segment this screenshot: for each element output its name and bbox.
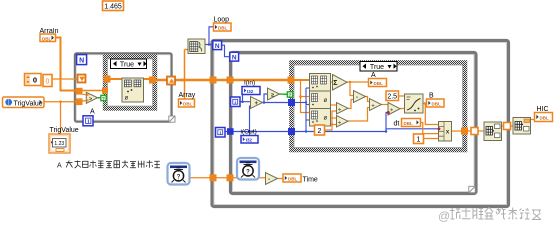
wire array into case 2 (orange) bbox=[294, 79, 310, 81]
svg-text:I32: I32 bbox=[246, 138, 253, 143]
watermark bbox=[438, 208, 541, 224]
iteration terminal i inner loop bbox=[231, 97, 241, 107]
wire power to B indicator with drop to multiply node bbox=[423, 103, 427, 105]
control terminal dt bbox=[402, 119, 421, 127]
annotation chinese text bbox=[57, 160, 160, 169]
indicator terminal Time bbox=[283, 174, 301, 182]
svg-text:2.5: 2.5 bbox=[387, 94, 397, 101]
svg-text:A: A bbox=[57, 163, 62, 170]
tunnel case 1 left bbox=[104, 76, 111, 83]
big divide node with coercion dot bbox=[387, 103, 400, 116]
svg-text:0: 0 bbox=[46, 79, 50, 86]
svg-text:-: - bbox=[268, 177, 270, 183]
wire to index array 1 bbox=[478, 130, 484, 132]
svg-text:?: ? bbox=[177, 174, 181, 180]
wire inside case 1 through icon bbox=[110, 78, 149, 80]
svg-text:DBL: DBL bbox=[183, 101, 192, 106]
tunnel case 2 right (result) bbox=[461, 128, 468, 135]
constant 2 bbox=[315, 125, 325, 135]
svg-text:DBL: DBL bbox=[432, 101, 441, 106]
tunnel outer loop right (hollow) bbox=[504, 123, 511, 130]
wire icon outputs to triangles bbox=[331, 81, 334, 83]
wire index array 2 to HIC indicator bbox=[531, 119, 535, 121]
case structure 1 border (checkered) bbox=[105, 57, 155, 109]
wire constant 1 into multiply node bbox=[424, 138, 439, 140]
wire blue riser to divide node bbox=[386, 113, 388, 132]
svg-text:N: N bbox=[215, 43, 220, 50]
case structure 2 border (checkered) bbox=[292, 63, 466, 151]
svg-text:DBL: DBL bbox=[42, 36, 51, 41]
inner for-loop resize handle bbox=[469, 186, 475, 192]
divide node 1 bbox=[337, 103, 349, 115]
inner for-loop border bbox=[231, 53, 477, 194]
numeric constant 0 with increment arrows bbox=[25, 74, 42, 86]
shared variable TrigValue bbox=[3, 97, 45, 108]
svg-text:B: B bbox=[429, 93, 434, 100]
svg-text:Loop: Loop bbox=[214, 17, 230, 24]
middle divide node bbox=[370, 99, 382, 111]
array subset icon stack inside case 2 bbox=[310, 74, 331, 127]
tunnel loop 1 left lower (TrigValue) bbox=[76, 98, 87, 105]
for-loop 1 count terminal N bbox=[77, 55, 87, 65]
indicator terminal Loop bbox=[214, 23, 232, 31]
wire subtract to middle triangle bbox=[365, 97, 370, 102]
svg-text:DBL: DBL bbox=[404, 121, 413, 126]
svg-text:-: - bbox=[356, 95, 358, 101]
wire add output to case selector 2 and tunnel bbox=[262, 102, 291, 104]
indicator terminal HIC bbox=[535, 113, 553, 122]
svg-text:÷: ÷ bbox=[372, 103, 375, 109]
wire constant 2 risers to divide triangles bbox=[325, 111, 337, 130]
wire fan to subset icons inside case 2 bbox=[301, 80, 311, 113]
wire multiply node out of case 2 bbox=[452, 130, 472, 132]
control terminal ArraIn bbox=[40, 34, 56, 42]
wire icon index feeds (blue) inside case 2 bbox=[295, 102, 306, 104]
wire sum branch down to subtract bbox=[350, 82, 354, 96]
svg-text:ArraIn: ArraIn bbox=[40, 28, 59, 35]
greater? node bbox=[86, 92, 97, 103]
indexing output tunnel loop 1 right bbox=[167, 76, 176, 85]
svg-text:I(in): I(in) bbox=[244, 80, 255, 87]
compound multiply node bbox=[438, 122, 452, 142]
svg-text:HIC: HIC bbox=[537, 106, 549, 113]
svg-text:True: True bbox=[120, 62, 134, 69]
for-loop 1 resize handle bbox=[169, 116, 175, 122]
svg-text:ø: ø bbox=[324, 116, 328, 122]
svg-text:A: A bbox=[90, 109, 95, 116]
wait clock 2 (inside loop) bbox=[237, 158, 259, 180]
svg-text:TrigValue: TrigValue bbox=[14, 100, 43, 107]
outer loop count terminal N bbox=[213, 41, 222, 50]
for-loop 1 border bbox=[75, 54, 172, 122]
subtract node (Time) bbox=[266, 173, 278, 185]
svg-text:DBL: DBL bbox=[374, 81, 383, 86]
iteration terminal i outer loop bbox=[216, 128, 226, 138]
svg-text:TrigValue: TrigValue bbox=[50, 127, 79, 134]
wire 2.5 into power function bbox=[399, 95, 405, 97]
tunnel case 2 top-left (array) bbox=[288, 77, 295, 84]
tunnel outer loop left (array) bbox=[210, 77, 217, 84]
wire middle triangle to big divide bbox=[381, 104, 388, 106]
svg-text:?: ? bbox=[102, 96, 105, 102]
wire vertical to Array Size and Array indicator bbox=[184, 50, 186, 100]
svg-text:dt: dt bbox=[394, 121, 400, 128]
wire divide2 to middle triangle lower input bbox=[348, 108, 370, 122]
constant 2.5 bbox=[386, 91, 399, 101]
svg-text:2: 2 bbox=[318, 128, 322, 135]
tunnel inner loop right (hollow) bbox=[471, 128, 478, 135]
indicator terminal i(Out) bbox=[241, 136, 258, 144]
svg-text:True: True bbox=[370, 64, 384, 71]
wire divide1 to subtract lower input bbox=[348, 100, 354, 109]
svg-text:1.23: 1.23 bbox=[54, 141, 64, 147]
svg-text:ø: ø bbox=[124, 96, 128, 102]
junction TrigValue bbox=[59, 100, 62, 103]
wire outer tunnel to index array 2 bbox=[511, 125, 514, 127]
svg-text:1: 1 bbox=[417, 137, 421, 144]
svg-text:Array: Array bbox=[179, 92, 196, 99]
tunnel case 1 right bbox=[149, 77, 156, 84]
svg-text:1.465: 1.465 bbox=[104, 4, 122, 11]
svg-text:A: A bbox=[371, 72, 376, 79]
svg-text:DBL: DBL bbox=[288, 176, 297, 181]
svg-text:+: + bbox=[255, 101, 259, 107]
svg-text:DBL: DBL bbox=[540, 116, 549, 121]
case 2 selector label True bbox=[360, 62, 397, 72]
wire index array 1 to outer tunnel bbox=[502, 125, 505, 127]
inner loop count terminal N bbox=[230, 52, 239, 61]
indicator terminal Array bbox=[179, 99, 195, 107]
wire I(in) terminal drop bbox=[242, 95, 244, 102]
wire compare output green to selector 2 bbox=[279, 93, 288, 95]
svg-text:ø: ø bbox=[324, 98, 328, 104]
svg-text:N: N bbox=[232, 54, 237, 61]
wire big divide into power function bbox=[399, 108, 405, 110]
function icon index array 2 bbox=[513, 118, 531, 135]
iteration terminal i loop 1 bbox=[83, 116, 93, 126]
svg-text:0: 0 bbox=[33, 76, 37, 85]
constant 0 (second) bbox=[43, 75, 52, 87]
tunnel loop 1 left upper (array element) bbox=[76, 88, 103, 95]
function icon Array Size bbox=[188, 39, 205, 54]
subtract node bbox=[354, 91, 366, 103]
case 2 selector terminal ? bbox=[287, 92, 292, 99]
junction blue N feed bbox=[208, 43, 211, 46]
compare node (>=) bbox=[268, 88, 280, 100]
tunnel inner loop left (clock wire) bbox=[227, 174, 234, 181]
tunnel inner loop left (array) bbox=[227, 77, 234, 84]
svg-text:Time: Time bbox=[303, 177, 318, 184]
indicator terminal A bbox=[369, 79, 387, 87]
control terminal I(in) bbox=[242, 87, 260, 95]
constant 1 bbox=[414, 134, 424, 144]
wire sum to A indicator bbox=[347, 81, 369, 83]
wire Array Size to N terminals and Loop indicator (blue) bbox=[205, 27, 214, 45]
svg-text:?: ? bbox=[246, 169, 250, 175]
wire wait clock to Time bbox=[190, 177, 266, 179]
case 1 selector label True bbox=[111, 59, 147, 69]
tunnel case 2 left lower (blue) bbox=[288, 128, 295, 135]
svg-text:i(Out): i(Out) bbox=[241, 129, 257, 136]
power function icon bbox=[405, 94, 424, 113]
svg-text:@: @ bbox=[438, 209, 450, 223]
sum node (sigma) bbox=[333, 75, 348, 91]
function icon inside case 1 (array ops) bbox=[122, 78, 144, 102]
svg-text:≥: ≥ bbox=[271, 93, 274, 99]
indexing tunnel on loop 1 left bbox=[77, 74, 86, 83]
wait clock 1 (outside loop) bbox=[168, 163, 190, 185]
wire i of inner loop (blue) bbox=[240, 101, 251, 103]
wire constant 0 to indexing tunnel bbox=[51, 78, 78, 80]
svg-text:I32: I32 bbox=[247, 89, 254, 94]
wire add bottom input riser bbox=[249, 106, 251, 136]
wire TrigValue horizontal bbox=[44, 101, 76, 103]
wire greater? output to case selector (green) bbox=[98, 97, 102, 99]
svg-text:>: > bbox=[89, 96, 92, 102]
wire main array out of loop 1 bbox=[156, 79, 291, 81]
svg-text:N: N bbox=[79, 58, 84, 65]
wire TrigValue drop to local variable bbox=[60, 102, 62, 134]
svg-text:DBL: DBL bbox=[218, 25, 227, 30]
local variable TrigValue icon bbox=[49, 134, 70, 153]
svg-text:÷: ÷ bbox=[390, 108, 393, 114]
case 1 selector terminal ? bbox=[101, 95, 106, 102]
wire subtract to Time indicator bbox=[278, 178, 284, 180]
tunnel outer loop left (clock wire) bbox=[210, 174, 217, 181]
wire ArraIn drop (orange array) bbox=[55, 38, 76, 91]
tunnel case 1 left second (element) bbox=[102, 88, 108, 94]
svg-text:÷: ÷ bbox=[338, 107, 341, 113]
divide node 2 bbox=[337, 116, 349, 128]
indicator terminal B bbox=[427, 99, 445, 107]
tunnel inner loop left (blue i wire) bbox=[227, 128, 234, 135]
add node bbox=[251, 97, 263, 109]
svg-text:?: ? bbox=[289, 93, 292, 99]
junction main wire bbox=[181, 79, 184, 82]
svg-text:÷: ÷ bbox=[338, 120, 341, 126]
svg-text:Σ: Σ bbox=[333, 80, 337, 87]
tunnel case 2 left (i wire) bbox=[288, 99, 295, 106]
wire bottom i chain (blue) bbox=[224, 131, 386, 133]
function icon index array 1 bbox=[484, 122, 502, 141]
constant 1.465 bbox=[103, 1, 124, 11]
outer while-loop border bbox=[212, 41, 509, 207]
wire dt into multiply node bbox=[421, 123, 439, 134]
